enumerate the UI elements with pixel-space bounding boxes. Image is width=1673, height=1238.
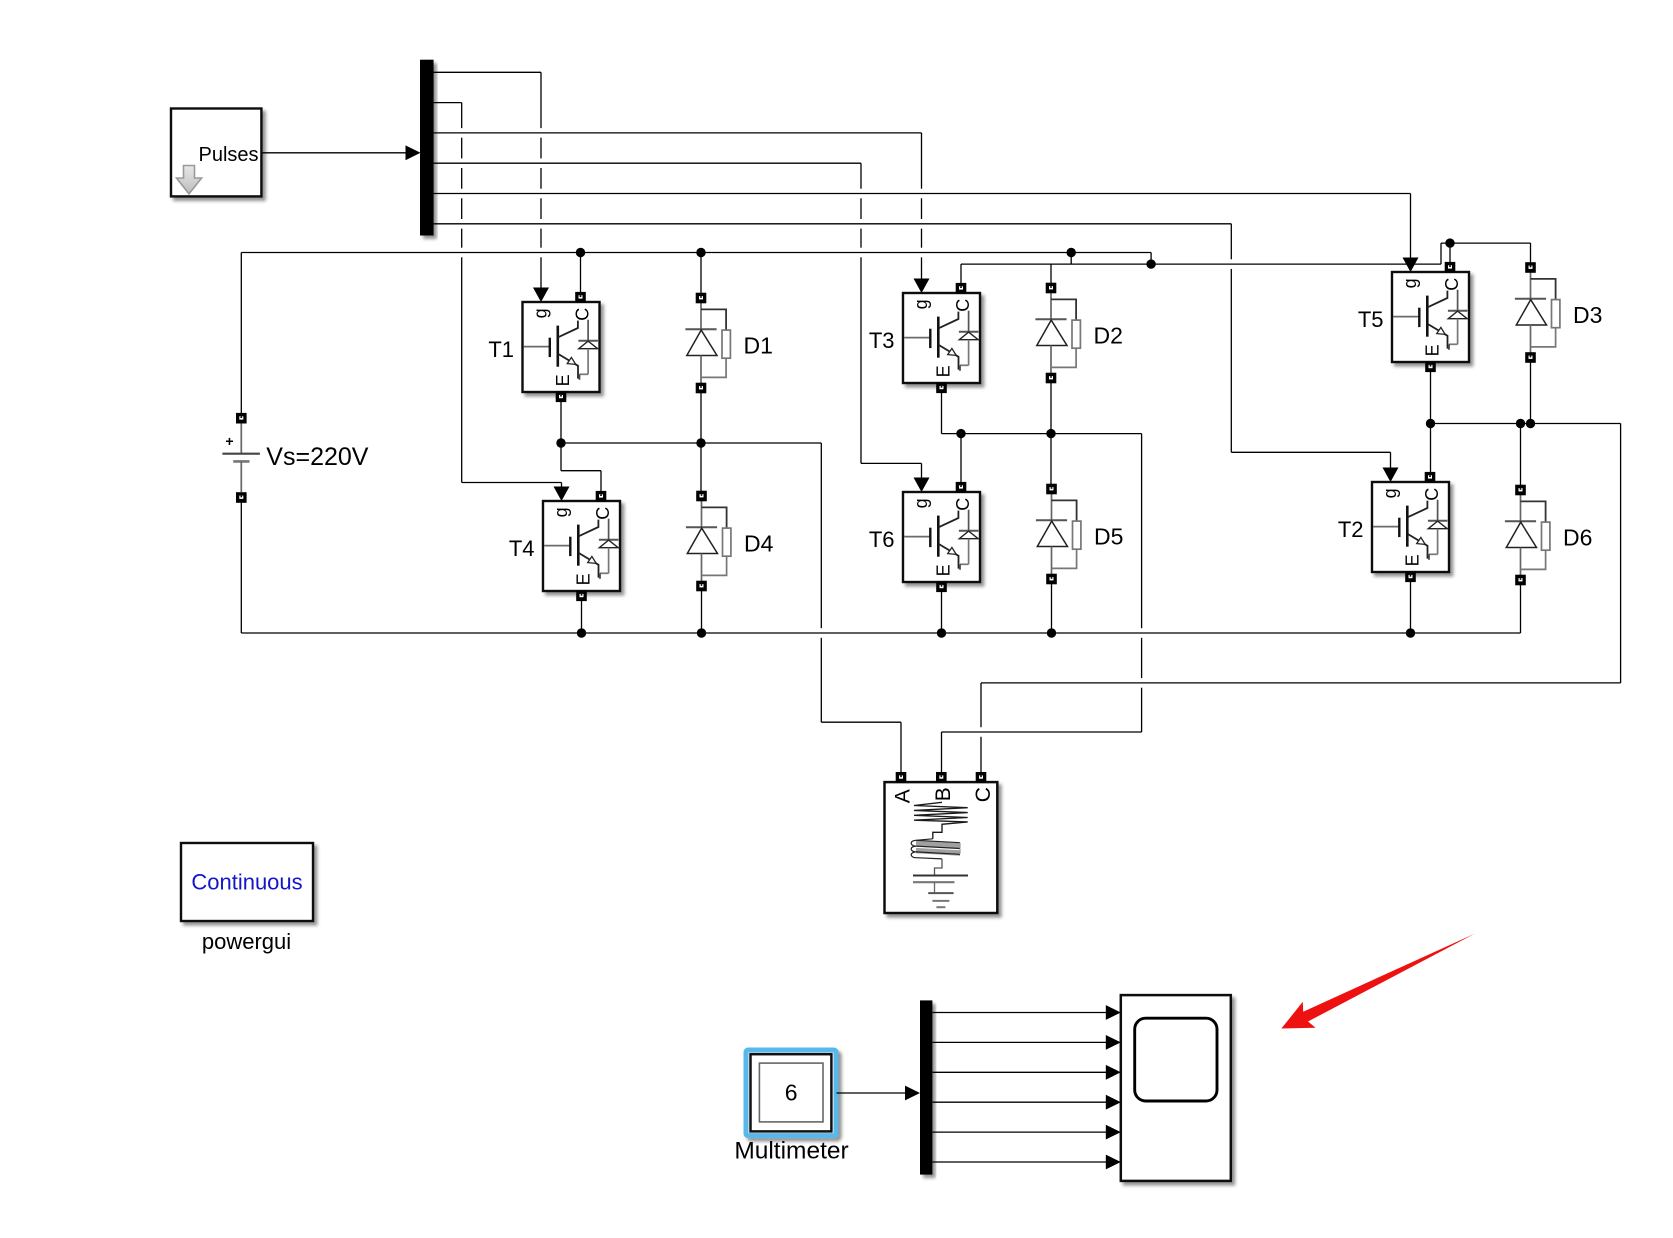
- svg-text:T6: T6: [869, 527, 895, 552]
- svg-text:A: A: [892, 789, 915, 803]
- svg-text:E: E: [933, 365, 953, 377]
- svg-text:D2: D2: [1094, 323, 1123, 349]
- svg-text:B: B: [932, 787, 955, 801]
- svg-text:T5: T5: [1358, 307, 1384, 332]
- svg-text:E: E: [1402, 554, 1422, 566]
- svg-text:powergui: powergui: [202, 929, 291, 954]
- svg-text:T3: T3: [869, 328, 895, 353]
- svg-text:E: E: [1422, 344, 1442, 356]
- svg-text:C: C: [593, 507, 613, 520]
- svg-text:C: C: [953, 299, 973, 312]
- svg-text:g: g: [551, 507, 571, 517]
- svg-text:D3: D3: [1573, 302, 1602, 328]
- svg-text:C: C: [1422, 488, 1442, 501]
- svg-text:Multimeter: Multimeter: [734, 1138, 848, 1165]
- svg-text:T1: T1: [488, 337, 514, 362]
- svg-text:C: C: [972, 787, 995, 802]
- svg-text:g: g: [911, 498, 931, 508]
- svg-text:E: E: [573, 573, 593, 585]
- svg-text:D4: D4: [744, 531, 774, 557]
- svg-text:C: C: [573, 308, 593, 321]
- svg-text:E: E: [553, 374, 573, 386]
- svg-text:g: g: [531, 308, 551, 318]
- svg-text:g: g: [911, 299, 931, 309]
- svg-text:C: C: [953, 498, 973, 511]
- svg-text:g: g: [1380, 488, 1400, 498]
- svg-text:D5: D5: [1094, 524, 1123, 550]
- svg-text:+: +: [225, 433, 233, 449]
- svg-text:Pulses: Pulses: [199, 144, 259, 166]
- svg-text:6: 6: [785, 1080, 798, 1106]
- svg-text:C: C: [1442, 278, 1462, 291]
- svg-text:g: g: [1400, 278, 1420, 288]
- svg-text:Continuous: Continuous: [191, 870, 302, 895]
- svg-text:E: E: [933, 564, 953, 576]
- svg-text:T2: T2: [1338, 517, 1364, 542]
- svg-text:D1: D1: [744, 333, 773, 359]
- svg-text:T4: T4: [509, 536, 535, 561]
- svg-text:Vs=220V: Vs=220V: [266, 443, 368, 471]
- svg-text:D6: D6: [1563, 525, 1592, 551]
